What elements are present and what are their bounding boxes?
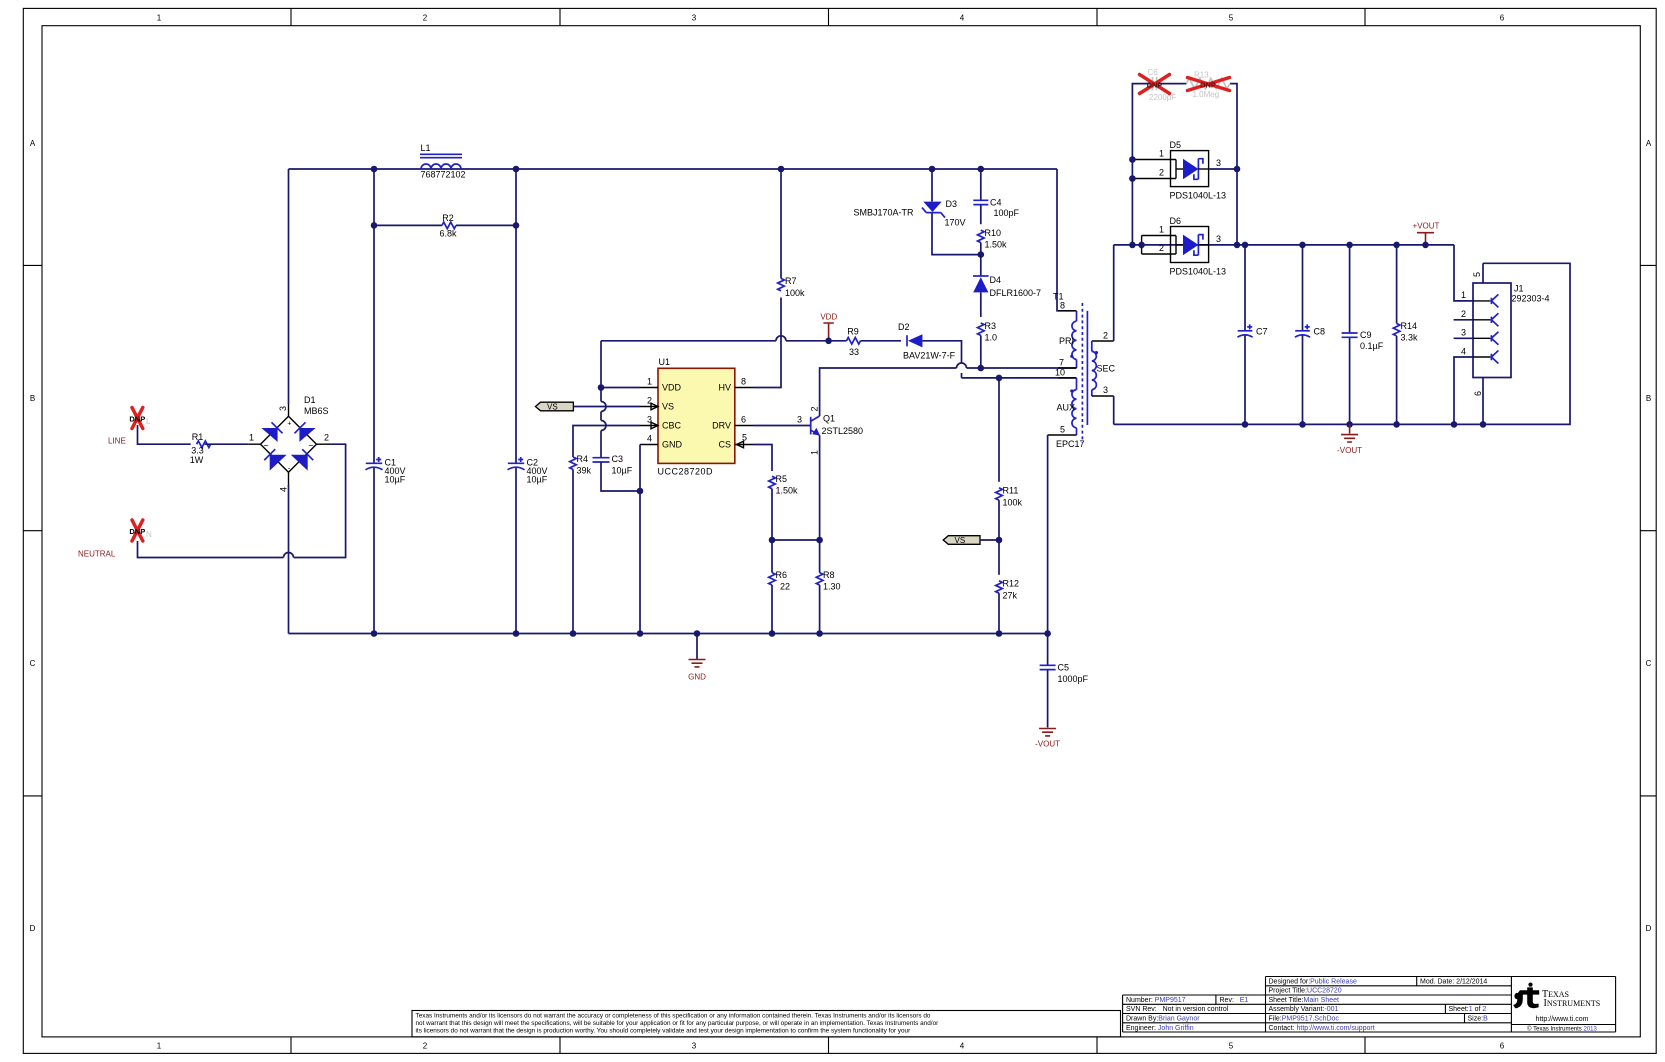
svg-text:PDS1040L-13: PDS1040L-13 xyxy=(1170,190,1227,200)
svg-text:22: 22 xyxy=(780,582,790,592)
svg-text:Q1: Q1 xyxy=(823,414,835,424)
node junction R2 right xyxy=(513,222,520,229)
svg-text:3: 3 xyxy=(1461,328,1466,338)
svg-text:R4: R4 xyxy=(577,454,589,464)
svg-text:D3: D3 xyxy=(946,199,958,209)
node junction top rail R7 xyxy=(778,166,785,173)
svg-text:6.8k: 6.8k xyxy=(439,229,457,239)
svg-text:R8: R8 xyxy=(823,570,835,580)
node junction rail C8 top xyxy=(1299,242,1306,249)
wire J1 pin1 feed xyxy=(1454,245,1473,301)
svg-text:~: ~ xyxy=(308,441,313,451)
svg-text:6: 6 xyxy=(1500,14,1505,23)
U1 pin 2 stub with input arrow xyxy=(640,403,658,410)
svg-text:http://www.ti.com: http://www.ti.com xyxy=(1536,1016,1589,1023)
wire VS flag to node xyxy=(980,539,999,541)
svg-text:Engineer: John Griffin: Engineer: John Griffin xyxy=(1126,1025,1194,1032)
resistor R5 xyxy=(769,474,798,496)
svg-text:3: 3 xyxy=(692,14,697,23)
wire SEC pin2 up to output rail xyxy=(1113,245,1115,341)
wire bridge pin4 to bottom rail xyxy=(288,485,290,634)
svg-text:GND: GND xyxy=(688,673,706,682)
wire C5 top xyxy=(1047,634,1049,666)
diode D4 DFLR1600-7 xyxy=(973,255,1041,317)
svg-text:EPC17: EPC17 xyxy=(1056,439,1085,449)
wire R6 to rail xyxy=(771,585,773,634)
wire hop NEUTRAL over bridge leg xyxy=(284,553,294,558)
svg-text:3: 3 xyxy=(1103,385,1108,395)
node junction top rail C4 xyxy=(978,166,985,173)
resistor R14 xyxy=(1393,321,1418,343)
node junction rail R14 bottom xyxy=(1393,421,1400,428)
svg-text:DNP: DNP xyxy=(1147,80,1163,89)
svg-text:2: 2 xyxy=(423,14,428,23)
svg-text:BAV21W-7-F: BAV21W-7-F xyxy=(903,350,956,360)
wire R8 to rail xyxy=(819,585,821,634)
svg-text:INSTRUMENTS: INSTRUMENTS xyxy=(1544,998,1601,1009)
connector J1 292303-4 xyxy=(1473,283,1550,378)
wire R11 from pin10 xyxy=(998,378,1000,482)
wire snubber right bus xyxy=(1230,84,1237,245)
svg-text:292303-4: 292303-4 xyxy=(1512,294,1550,304)
svg-text:R14: R14 xyxy=(1401,321,1418,331)
node junction rail C8 bottom xyxy=(1299,421,1306,428)
node junction bottom rail R6 xyxy=(769,630,776,637)
svg-text:GND: GND xyxy=(662,440,683,450)
wire -V output rail xyxy=(1114,263,1570,424)
row labels right xyxy=(1646,139,1652,933)
svg-text:UCC28720D: UCC28720D xyxy=(658,467,714,477)
svg-text:1: 1 xyxy=(1159,149,1164,159)
svg-text:1.0: 1.0 xyxy=(985,332,998,342)
node junction rail C7 top xyxy=(1242,242,1249,249)
DNP mark NEUTRAL port xyxy=(129,520,152,541)
wire C9 branch xyxy=(1349,245,1351,425)
svg-text:R9: R9 xyxy=(847,326,859,336)
svg-text:4: 4 xyxy=(647,434,652,444)
wire C3 bottom to GND net xyxy=(601,462,640,491)
wire VDD pin1 xyxy=(601,387,640,389)
wire bottom rail xyxy=(289,633,1048,635)
diode D2 BAV21W-7-F xyxy=(898,322,956,360)
resistor R11 xyxy=(996,485,1023,507)
ground symbol -VOUT at C9 xyxy=(1337,424,1362,454)
ground symbol GND xyxy=(688,634,706,682)
svg-text:2: 2 xyxy=(1159,243,1164,253)
wire R5 bottom to CS row xyxy=(771,489,773,540)
power symbol VDD xyxy=(820,313,837,341)
capacitor C6 DNP xyxy=(1148,68,1177,102)
svg-text:A: A xyxy=(1646,139,1652,148)
svg-text:CS: CS xyxy=(718,440,731,450)
svg-text:R12: R12 xyxy=(1003,578,1020,588)
svg-text:D: D xyxy=(30,924,36,933)
svg-text:1: 1 xyxy=(810,450,820,455)
wire C5 bottom xyxy=(1047,670,1049,728)
bridge pin4 stub xyxy=(288,472,290,484)
svg-text:SVN Rev: Not in version cont: SVN Rev: Not in version control xyxy=(1126,1006,1229,1013)
node junction rail C7 bottom xyxy=(1242,421,1249,428)
resistor R12 xyxy=(996,578,1019,600)
svg-text:6: 6 xyxy=(741,415,746,425)
svg-text:C3: C3 xyxy=(612,454,624,464)
svg-text:SMBJ170A-TR: SMBJ170A-TR xyxy=(853,207,914,217)
title block grid xyxy=(1123,977,1616,1033)
wire J1 pin6 down xyxy=(1482,378,1484,425)
U1 pin 1 stub xyxy=(640,387,658,389)
wire LINE input xyxy=(138,425,191,444)
svg-text:R1: R1 xyxy=(192,432,204,442)
column labels top xyxy=(157,14,1505,23)
svg-text:-VOUT: -VOUT xyxy=(1035,740,1060,749)
svg-text:39k: 39k xyxy=(577,466,592,476)
wire C2 branch xyxy=(515,169,517,634)
wire R10 bottom xyxy=(980,243,982,255)
svg-text:DRV: DRV xyxy=(712,421,731,431)
svg-text:1W: 1W xyxy=(190,455,204,465)
DNP mark R13 xyxy=(1188,78,1230,91)
svg-text:© Texas Instruments 2013: © Texas Instruments 2013 xyxy=(1527,1025,1597,1032)
node junction rail snubber right xyxy=(1234,242,1241,249)
svg-text:C5: C5 xyxy=(1058,662,1070,672)
svg-text:~: ~ xyxy=(263,441,268,451)
svg-text:1000pF: 1000pF xyxy=(1058,674,1089,684)
node junction top rail C2 xyxy=(513,166,520,173)
svg-text:VS: VS xyxy=(662,402,674,412)
svg-text:5: 5 xyxy=(1472,272,1482,277)
node junction pin10 R11 xyxy=(996,375,1003,382)
svg-text:5: 5 xyxy=(1229,1042,1234,1051)
svg-text:2: 2 xyxy=(1159,168,1164,178)
svg-text:B: B xyxy=(1646,394,1651,403)
svg-text:Assembly Variant:-001: Assembly Variant:-001 xyxy=(1269,1006,1339,1013)
bridge pin3 stub xyxy=(288,404,290,416)
diode D5 PDS1040L-13 xyxy=(1132,140,1226,201)
svg-text:1: 1 xyxy=(249,433,254,443)
wire R14 branch xyxy=(1396,245,1398,425)
svg-text:100pF: 100pF xyxy=(994,208,1020,218)
wire bridge pin3 to top rail xyxy=(288,169,290,404)
svg-text:Number: PMP9517: Number: PMP9517 xyxy=(1126,997,1186,1004)
wire R12 bottom to rail xyxy=(998,593,1000,633)
border column dividers bottom xyxy=(291,1037,1365,1054)
svg-text:L1: L1 xyxy=(421,143,431,153)
svg-text:C: C xyxy=(30,659,36,668)
svg-text:R5: R5 xyxy=(776,474,788,484)
svg-text:1: 1 xyxy=(157,1042,162,1051)
svg-text:3: 3 xyxy=(1216,158,1221,168)
disclaimer text box xyxy=(412,1011,1121,1037)
wire VDD vertical with hops over VS and CBC xyxy=(600,341,602,458)
svg-text:3: 3 xyxy=(797,414,802,424)
wire hop pin7 line over D2 drop xyxy=(957,363,967,368)
svg-text:Project Title:UCC28720: Project Title:UCC28720 xyxy=(1269,988,1342,995)
wire R1 to bridge pin1 xyxy=(205,443,249,445)
row labels left xyxy=(30,139,36,933)
resistor R7 xyxy=(778,276,805,298)
resistor R2 xyxy=(439,213,457,238)
svg-text:2STL2580: 2STL2580 xyxy=(822,426,864,436)
svg-text:2: 2 xyxy=(1461,309,1466,319)
svg-text:2: 2 xyxy=(1103,331,1108,341)
diode D6 PDS1040L-13 xyxy=(1142,216,1226,276)
svg-text:Sheet Title:Main Sheet: Sheet Title:Main Sheet xyxy=(1269,997,1339,1004)
svg-text:1: 1 xyxy=(1461,290,1466,300)
inductor L1 xyxy=(420,143,466,180)
U1 pin 4 stub xyxy=(640,444,658,446)
svg-text:1: 1 xyxy=(157,14,162,23)
U1 pin 3 stub with input arrow xyxy=(640,422,658,429)
svg-text:L: L xyxy=(146,417,151,426)
svg-text:File:PMP9517.SchDoc: File:PMP9517.SchDoc xyxy=(1269,1016,1340,1023)
node junction rail +VOUT xyxy=(1422,242,1429,249)
wire J1 pin2 stub xyxy=(1454,319,1473,321)
svg-text:2: 2 xyxy=(810,406,820,411)
wire R7 top to rail xyxy=(780,169,782,278)
svg-text:J1: J1 xyxy=(1514,284,1524,294)
svg-text:100k: 100k xyxy=(785,288,805,298)
svg-text:D: D xyxy=(1646,924,1652,933)
node junction R2 left xyxy=(371,222,378,229)
svg-text:VDD: VDD xyxy=(662,383,682,393)
column labels bottom xyxy=(157,1042,1505,1051)
svg-text:5: 5 xyxy=(1229,14,1234,23)
node junction top rail D3 xyxy=(929,166,936,173)
wire VS flag to pin2 xyxy=(573,406,640,408)
svg-text:R6: R6 xyxy=(776,570,788,580)
svg-text:SEC: SEC xyxy=(1097,363,1116,373)
svg-text:CBC: CBC xyxy=(662,421,682,431)
node junction D5 out xyxy=(1234,166,1241,173)
wire C1 branch xyxy=(373,169,375,634)
wire CS row xyxy=(772,539,820,541)
svg-text:R7: R7 xyxy=(785,276,797,286)
node junction rail R12 xyxy=(996,630,1003,637)
svg-text:LINE: LINE xyxy=(108,436,126,445)
svg-text:1: 1 xyxy=(647,377,652,387)
border row dividers left xyxy=(23,265,42,796)
node junction VS R11 R12 xyxy=(996,537,1003,544)
svg-text:N: N xyxy=(146,530,152,539)
svg-text:8: 8 xyxy=(1060,301,1065,311)
node junction top rail C1 xyxy=(371,166,378,173)
svg-text:100k: 100k xyxy=(1003,497,1023,507)
wire J1 pin5 up xyxy=(1482,263,1484,283)
wire R4 bottom to rail xyxy=(572,469,574,633)
node junction bottom rail GND xyxy=(694,630,701,637)
net flag VS at R12 xyxy=(943,536,980,545)
svg-text:Designed for:Public Release: Designed for:Public Release xyxy=(1269,978,1357,985)
resistor R3 xyxy=(978,321,998,343)
resistor R4 xyxy=(570,454,592,476)
wire R11 bottom to VS node xyxy=(998,500,1000,540)
svg-text:4: 4 xyxy=(960,1042,965,1051)
DNP mark C6 xyxy=(1140,75,1170,94)
wire top rail xyxy=(289,168,1058,170)
wire DRV to Q1 base xyxy=(753,425,811,427)
node junction bottom rail R8 xyxy=(816,630,823,637)
svg-text:D2: D2 xyxy=(898,322,910,332)
svg-text:768772102: 768772102 xyxy=(421,170,466,180)
svg-text:not warrant that this design w: not warrant that this design will meet t… xyxy=(416,1020,940,1027)
svg-text:DNP: DNP xyxy=(129,527,145,536)
diode D3 TVS SMBJ170A-TR xyxy=(853,169,980,255)
wire AUX pin5 down xyxy=(1047,435,1049,634)
node junction D3 R10 xyxy=(978,251,985,258)
svg-text:6: 6 xyxy=(1473,391,1483,396)
svg-text:U1: U1 xyxy=(659,357,671,367)
node junction rail J1 pin4 xyxy=(1451,421,1458,428)
node junction rail C9 bottom xyxy=(1346,421,1353,428)
wire snubber mid xyxy=(1159,83,1187,85)
node junction rail R14 top xyxy=(1393,242,1400,249)
svg-text:DNP: DNP xyxy=(1200,80,1216,89)
transistor Q1 2STL2580 xyxy=(810,414,863,437)
node junction VDD rail R9 xyxy=(825,338,832,345)
svg-text:C: C xyxy=(1646,659,1652,668)
wire +V output rail xyxy=(1114,244,1454,246)
svg-text:MB6S: MB6S xyxy=(304,406,329,416)
border row dividers right xyxy=(1640,265,1656,796)
net flag VS at U1 xyxy=(535,402,573,411)
svg-text:1.30: 1.30 xyxy=(823,582,841,592)
capacitor C7 xyxy=(1237,324,1267,337)
svg-text:PRI: PRI xyxy=(1059,336,1074,346)
node junction rail J1 pin6 xyxy=(1480,421,1487,428)
bridge pin1 stub xyxy=(248,443,260,445)
svg-text:170V: 170V xyxy=(945,217,966,227)
IC U1 UCC28720D xyxy=(658,357,735,477)
svg-text:1.50k: 1.50k xyxy=(985,239,1008,249)
svg-text:C6: C6 xyxy=(1148,68,1159,77)
node junction rail AUX xyxy=(1044,630,1051,637)
node junction rail C9 top xyxy=(1346,242,1353,249)
capacitor C4 xyxy=(973,169,1019,224)
node junction CS row Q1e xyxy=(816,537,823,544)
svg-text:VS: VS xyxy=(547,403,558,412)
capacitor C5 xyxy=(1040,662,1089,684)
wire R2 row xyxy=(374,224,516,226)
svg-text:2: 2 xyxy=(423,1042,428,1051)
wire J1 pin3 stub xyxy=(1454,337,1473,339)
ground symbol -VOUT at C5 xyxy=(1035,729,1060,749)
svg-text:5: 5 xyxy=(1060,425,1065,435)
svg-text:3: 3 xyxy=(692,1042,697,1051)
capacitor C8 xyxy=(1295,324,1325,337)
node junction bottom rail R4 xyxy=(570,630,577,637)
node junction bottom rail U1 gnd xyxy=(637,630,644,637)
svg-text:C8: C8 xyxy=(1314,326,1326,336)
wire U1 GND pin4 down xyxy=(639,445,641,634)
svg-text:Sheet:1 of 2: Sheet:1 of 2 xyxy=(1449,1006,1487,1013)
svg-text:D1: D1 xyxy=(304,395,316,405)
svg-text:D6: D6 xyxy=(1170,216,1182,226)
svg-text:0.1µF: 0.1µF xyxy=(1360,341,1384,351)
wire SEC pin3 down to -V rail xyxy=(1113,396,1115,424)
svg-text:C4: C4 xyxy=(990,197,1002,207)
transformer T1 EPC17 xyxy=(1048,292,1116,449)
svg-text:+: + xyxy=(287,421,291,428)
U1 pin 6 stub xyxy=(735,425,753,427)
svg-text:8: 8 xyxy=(741,377,746,387)
bridge pin2 stub xyxy=(317,443,330,445)
svg-text:R13: R13 xyxy=(1194,71,1209,80)
power symbol +VOUT xyxy=(1413,222,1440,245)
wire NEUTRAL input xyxy=(138,444,346,557)
resistor R6 xyxy=(769,570,790,592)
svg-text:PDS1040L-13: PDS1040L-13 xyxy=(1170,266,1227,276)
svg-text:C9: C9 xyxy=(1360,330,1372,340)
node junction D5 pin2 xyxy=(1129,175,1136,182)
svg-text:4: 4 xyxy=(960,14,965,23)
DNP mark LINE port xyxy=(129,408,151,429)
svg-text:10: 10 xyxy=(1055,368,1065,378)
capacitor C2 xyxy=(508,457,548,484)
TI logo bug xyxy=(1513,983,1539,1009)
wire CS pin to R5 xyxy=(753,445,772,472)
svg-text:6: 6 xyxy=(1500,1042,1505,1051)
wire Q1 emitter down xyxy=(819,435,821,540)
svg-text:A: A xyxy=(30,139,36,148)
svg-text:NEUTRAL: NEUTRAL xyxy=(78,549,116,558)
svg-text:4: 4 xyxy=(279,487,289,492)
wire R12 top xyxy=(998,540,1000,575)
svg-text:33: 33 xyxy=(849,347,859,357)
node junction GND C3 xyxy=(637,488,644,495)
svg-text:2: 2 xyxy=(324,433,329,443)
svg-text:Size:B: Size:B xyxy=(1468,1016,1489,1023)
node junction D5 pin1 xyxy=(1129,156,1136,163)
resistor R13 DNP xyxy=(1187,71,1230,99)
resistor R9 xyxy=(847,326,861,356)
wire hop VDD vert over CBC line xyxy=(601,421,606,431)
svg-text:DNP: DNP xyxy=(129,415,145,424)
resistor R1 xyxy=(190,432,211,465)
node junction rail D6 tab xyxy=(1138,242,1145,249)
node junction bottom rail C1 xyxy=(371,630,378,637)
svg-text:C7: C7 xyxy=(1256,326,1268,336)
svg-text:Rev: E1: Rev: E1 xyxy=(1220,997,1249,1004)
resistor R10 xyxy=(978,228,1008,250)
wire hop VDD vert over VS line xyxy=(601,402,606,412)
capacitor C9 xyxy=(1342,330,1384,351)
svg-text:27k: 27k xyxy=(1003,590,1018,600)
capacitor C1 xyxy=(366,457,406,484)
U1 pin 5 stub with arrow xyxy=(735,441,753,448)
svg-text:1.50k: 1.50k xyxy=(776,486,799,496)
resistor R8 xyxy=(816,570,840,592)
svg-text:R10: R10 xyxy=(985,228,1002,238)
wire C8 branch xyxy=(1302,245,1304,425)
svg-text:Drawn By:Brian Gaynor: Drawn By:Brian Gaynor xyxy=(1126,1016,1200,1023)
border column dividers top xyxy=(291,8,1365,25)
svg-text:7: 7 xyxy=(1059,357,1064,367)
node junction CS row R5 xyxy=(769,537,776,544)
wire pin10 line xyxy=(962,377,1077,379)
wire D5 out xyxy=(1209,168,1237,170)
svg-text:3: 3 xyxy=(1216,234,1221,244)
svg-text:3.3k: 3.3k xyxy=(1401,333,1419,343)
svg-text:1.0Meg: 1.0Meg xyxy=(1193,90,1220,99)
svg-text:10µF: 10µF xyxy=(527,474,548,484)
svg-text:4: 4 xyxy=(1461,346,1466,356)
svg-text:its licensors do not warrant t: its licensors do not warrant that the de… xyxy=(416,1028,912,1035)
svg-text:Mod. Date: 2/12/2014: Mod. Date: 2/12/2014 xyxy=(1420,978,1487,985)
wire D2 to pin10 line xyxy=(922,341,961,378)
node junction pin7 R3 xyxy=(978,365,985,372)
wire C7 branch xyxy=(1244,245,1246,425)
svg-text:D4: D4 xyxy=(990,275,1002,285)
